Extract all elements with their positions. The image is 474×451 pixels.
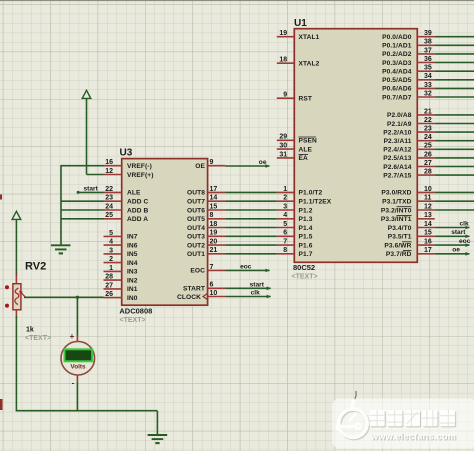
- U1 pin 21 P2.0/A8: [387, 108, 435, 119]
- U1 pin 31 EA: [277, 151, 308, 162]
- svg-text:P0.4/AD4: P0.4/AD4: [382, 69, 412, 76]
- U3 pin 3 IN5: [104, 247, 138, 258]
- svg-text:5: 5: [283, 221, 287, 228]
- IC U1 80C52 microcontroller body: [292, 18, 418, 281]
- wire and net label eoc at U1 P3.6: [435, 238, 471, 247]
- svg-text:IN4: IN4: [127, 260, 138, 267]
- svg-text:39: 39: [424, 30, 432, 37]
- svg-text:36: 36: [424, 56, 432, 63]
- svg-text:IN7: IN7: [127, 234, 138, 241]
- svg-text:4: 4: [109, 239, 113, 246]
- svg-text:OUT7: OUT7: [187, 199, 205, 206]
- U1 pin 25 P2.4/A12: [383, 143, 435, 154]
- U1 pin 3 P1.2: [277, 203, 313, 214]
- svg-text:11: 11: [424, 195, 432, 202]
- U1 pin 13 P3.3/INT1: [381, 212, 435, 223]
- svg-text:20: 20: [210, 239, 218, 246]
- U1 pin 27 P2.6/A14: [383, 160, 435, 171]
- svg-text:13: 13: [424, 212, 432, 219]
- wire and net label start at U1 P3.5: [435, 229, 470, 238]
- svg-text:ALE: ALE: [299, 146, 313, 153]
- wire P2.4/A12 to right edge: [435, 148, 474, 150]
- svg-text:oe: oe: [259, 159, 267, 166]
- svg-text:7: 7: [210, 264, 214, 271]
- wire P3.1/TXD to right edge: [435, 200, 474, 202]
- svg-text:P3.0/RXD: P3.0/RXD: [381, 190, 411, 197]
- U1 pin 24 P2.3/A11: [384, 134, 435, 145]
- junction dot wiper/voltmeter: [76, 296, 79, 299]
- svg-text:1: 1: [283, 186, 287, 193]
- U3 pin 15 OUT6: [187, 203, 225, 214]
- U1 pin 15 P3.5/T1: [388, 230, 435, 241]
- svg-text:P3.6/WR: P3.6/WR: [384, 242, 411, 249]
- svg-text:P2.3/A11: P2.3/A11: [384, 138, 412, 145]
- svg-text:IN5: IN5: [127, 251, 138, 258]
- U1 pin 8 P1.7: [277, 247, 313, 258]
- svg-text:P1.4: P1.4: [299, 225, 313, 232]
- svg-text:22: 22: [105, 186, 113, 193]
- svg-text:RV2: RV2: [25, 261, 46, 273]
- svg-text:P0.7/AD7: P0.7/AD7: [382, 94, 412, 101]
- wire and net label clk at U3 CLOCK pin: [225, 290, 271, 299]
- wire U3 OUT2 to U1 P1.6: [225, 244, 277, 246]
- svg-text:24: 24: [424, 134, 432, 141]
- U3 pin 14 OUT7: [187, 195, 225, 206]
- svg-text:ALE: ALE: [127, 190, 141, 197]
- svg-text:<TEXT>: <TEXT>: [292, 274, 318, 281]
- svg-text:2: 2: [283, 195, 287, 202]
- svg-text:<TEXT>: <TEXT>: [25, 335, 51, 342]
- U3 pin 2 IN4: [104, 256, 138, 267]
- svg-text:28: 28: [424, 169, 432, 176]
- wire P2.7/A15 to right edge: [435, 174, 474, 176]
- U3 pin 12 VREF(+): [104, 168, 154, 179]
- U3 pin 7 EOC: [190, 264, 225, 275]
- svg-text:eoc: eoc: [240, 264, 252, 271]
- U1 pin 12 P3.2/INT0: [381, 203, 435, 214]
- svg-text:30: 30: [279, 143, 287, 150]
- svg-text:ADD B: ADD B: [127, 207, 149, 214]
- svg-text:22: 22: [424, 117, 432, 124]
- U3 pin 8 OUT5: [187, 212, 225, 223]
- svg-text:P2.7/A15: P2.7/A15: [383, 172, 412, 179]
- svg-text:P0.3/AD3: P0.3/AD3: [382, 60, 412, 67]
- svg-text:8: 8: [210, 212, 214, 219]
- wire P0.2/AD2 to right edge: [435, 53, 474, 55]
- svg-text:6: 6: [283, 230, 287, 237]
- U1 pin 17 P3.7/RD: [386, 247, 435, 258]
- svg-text:start: start: [451, 229, 466, 236]
- svg-text:8: 8: [283, 247, 287, 254]
- U3 pin 22 ALE: [104, 186, 141, 197]
- resistor RV2 potentiometer: [5, 274, 26, 318]
- svg-text:P0.2/AD2: P0.2/AD2: [382, 51, 412, 58]
- wire power to VREF(+) vertical: [86, 98, 88, 174]
- svg-text:XTAL2: XTAL2: [299, 61, 320, 68]
- U1 pin 22 P2.1/A9: [387, 117, 435, 128]
- svg-text:27: 27: [424, 160, 432, 167]
- svg-text:10: 10: [210, 290, 218, 297]
- svg-text:P1.1/T2EX: P1.1/T2EX: [299, 199, 332, 206]
- IC U3 ADC0808 body: [119, 148, 207, 325]
- U3 CLOCK pin clock input marker: [203, 293, 208, 299]
- U1 pin 37 P0.2/AD2: [382, 47, 435, 58]
- svg-text:VREF(+): VREF(+): [127, 172, 154, 179]
- svg-text:ADD C: ADD C: [127, 199, 149, 206]
- svg-text:16: 16: [105, 159, 113, 166]
- svg-text:START: START: [183, 286, 205, 293]
- svg-text:P1.3: P1.3: [299, 216, 313, 223]
- svg-text:EA: EA: [299, 155, 308, 162]
- wire U3 OUT5 to U1 P1.3: [225, 218, 277, 220]
- svg-text:P1.2: P1.2: [299, 207, 313, 214]
- svg-text:21: 21: [424, 108, 432, 115]
- svg-text:2: 2: [109, 256, 113, 263]
- U3 pin 9 OE: [195, 159, 225, 170]
- U1 pin 34 P0.5/AD5: [382, 73, 435, 84]
- svg-text:P2.1/A9: P2.1/A9: [387, 121, 412, 128]
- svg-text:IN0: IN0: [127, 295, 138, 302]
- U1 pin 28 P2.7/A15: [383, 169, 435, 180]
- svg-text:P1.6: P1.6: [299, 242, 313, 249]
- svg-text:P2.5/A13: P2.5/A13: [383, 155, 412, 162]
- U1 pin 4 P1.3: [277, 212, 313, 223]
- svg-text:12: 12: [105, 168, 113, 175]
- wire P2.5/A13 to right edge: [435, 157, 474, 159]
- svg-text:OUT2: OUT2: [187, 242, 205, 249]
- wire P2.0/A8 to right edge: [435, 114, 474, 116]
- svg-text:37: 37: [424, 47, 432, 54]
- wire U3 OUT7 to U1 P1.1: [225, 200, 277, 202]
- svg-text:IN6: IN6: [127, 242, 138, 249]
- wire and net label oe at U3 OE pin: [225, 159, 269, 168]
- svg-text:3: 3: [283, 203, 287, 210]
- U1 pin 10 P3.0/RXD: [381, 186, 434, 197]
- svg-text:25: 25: [105, 212, 113, 219]
- power symbol (arrow) above RV2: [12, 211, 21, 219]
- svg-text:14: 14: [210, 195, 218, 202]
- svg-text:P3.3/INT1: P3.3/INT1: [381, 216, 412, 223]
- wire P2.1/A9 to right edge: [435, 123, 474, 125]
- wire P0.1/AD1 to right edge: [435, 44, 474, 46]
- svg-text:IN3: IN3: [127, 269, 138, 276]
- svg-text:17: 17: [210, 186, 218, 193]
- svg-text:P3.4/T0: P3.4/T0: [388, 225, 412, 232]
- wire P0.6/AD6 to right edge: [435, 87, 474, 89]
- wire power to VREF(+) horizontal: [87, 174, 104, 176]
- svg-text:VREF(-): VREF(-): [127, 163, 152, 170]
- svg-text:21: 21: [210, 247, 218, 254]
- svg-text:15: 15: [210, 203, 218, 210]
- wire U3 OUT1 to U1 P1.7: [225, 253, 277, 255]
- U3 pin 21 OUT1: [187, 247, 225, 258]
- svg-text:U3: U3: [120, 148, 133, 159]
- svg-text:9: 9: [283, 92, 287, 99]
- U1 pin 19 XTAL1: [277, 30, 320, 41]
- svg-text:start: start: [84, 186, 99, 193]
- U1 pin 5 P1.4: [277, 221, 313, 232]
- watermark elecfans logo box: [332, 391, 474, 449]
- U1 pin 23 P2.2/A10: [383, 126, 435, 137]
- svg-text:P3.5/T1: P3.5/T1: [388, 234, 412, 241]
- wire U3 OUT3 to U1 P1.5: [225, 235, 277, 237]
- svg-text:U1: U1: [294, 18, 307, 29]
- svg-text:14: 14: [424, 221, 432, 228]
- svg-text:28: 28: [105, 274, 113, 281]
- wire ground net vertical: [60, 165, 62, 245]
- svg-text:<TEXT>: <TEXT>: [120, 317, 146, 324]
- svg-text:OUT5: OUT5: [187, 216, 205, 223]
- svg-text:18: 18: [279, 57, 287, 64]
- svg-text:5: 5: [109, 230, 113, 237]
- wire U3 VREF(-) to ground net: [61, 165, 104, 167]
- svg-text:38: 38: [424, 39, 432, 46]
- wire U3 OUT4 to U1 P1.4: [225, 227, 277, 229]
- svg-text:PSEN: PSEN: [299, 138, 317, 145]
- U1 pin 7 P1.6: [277, 239, 313, 250]
- svg-text:+: +: [70, 332, 75, 341]
- svg-text:3: 3: [109, 247, 113, 254]
- svg-text:P1.5: P1.5: [299, 234, 313, 241]
- svg-text:P0.1/AD1: P0.1/AD1: [382, 43, 412, 50]
- U3 pin 28 IN2: [104, 274, 138, 285]
- ground symbol at ADC address/VREF net: [51, 245, 71, 253]
- svg-text:23: 23: [424, 126, 432, 133]
- svg-text:31: 31: [279, 151, 287, 158]
- wire U3 OUT8 to U1 P1.0: [225, 191, 277, 193]
- wire U3 ADD C to ground net: [61, 200, 104, 202]
- svg-text:P3.2/INT0: P3.2/INT0: [381, 207, 412, 214]
- svg-text:CLOCK: CLOCK: [177, 294, 201, 301]
- svg-text:24: 24: [105, 203, 113, 210]
- svg-text:start: start: [250, 282, 265, 289]
- svg-text:P0.6/AD6: P0.6/AD6: [382, 86, 412, 93]
- U3 pin 20 OUT2: [187, 239, 225, 250]
- wire and net label oe at U1 P3.7: [435, 247, 470, 256]
- wire P0.7/AD7 to right edge: [435, 96, 474, 98]
- svg-text:OUT4: OUT4: [187, 225, 205, 232]
- wire bottom rail to ground: [156, 411, 158, 435]
- svg-text:12: 12: [424, 203, 432, 210]
- svg-text:23: 23: [105, 195, 113, 202]
- U3 pin 1 IN3: [104, 265, 138, 276]
- wire and net label start at U3 ALE pin: [77, 186, 104, 194]
- U1 pin 36 P0.3/AD3: [382, 56, 435, 67]
- svg-text:80C52: 80C52: [293, 263, 315, 272]
- svg-text:ADD A: ADD A: [127, 216, 148, 223]
- U1 pin 9 RST: [277, 92, 312, 103]
- U3 pin 27 IN1: [104, 282, 138, 293]
- wire P0.0/AD0 to right edge: [435, 36, 474, 38]
- U3 pin 18 OUT4: [187, 221, 225, 232]
- U1 pin 26 P2.5/A13: [383, 151, 435, 162]
- U3 pin 5 IN7: [104, 230, 138, 241]
- svg-text:33: 33: [424, 82, 432, 89]
- U1 pin 30 ALE: [277, 143, 313, 154]
- svg-text:OUT6: OUT6: [187, 207, 205, 214]
- U3 pin 17 OUT8: [187, 186, 225, 197]
- wire P0.5/AD5 to right edge: [435, 79, 474, 81]
- U3 pin 26 IN0: [104, 291, 138, 302]
- wire RV2 bottom vertical: [15, 316, 17, 411]
- svg-text:clk: clk: [460, 220, 469, 227]
- svg-text:OUT8: OUT8: [187, 190, 205, 197]
- svg-text:15: 15: [424, 230, 432, 237]
- svg-text:27: 27: [105, 282, 113, 289]
- svg-text:1: 1: [109, 265, 113, 272]
- svg-text:16: 16: [424, 239, 432, 246]
- svg-text:eoc: eoc: [459, 238, 471, 245]
- svg-text:P1.0/T2: P1.0/T2: [299, 190, 323, 197]
- wire U3 ADD B to ground net: [61, 209, 104, 211]
- wire bottom rail horizontal: [16, 410, 158, 412]
- ground symbol at bottom rail: [148, 435, 168, 443]
- wire power arrow to RV2 top: [15, 219, 17, 276]
- U1 pin 6 P1.5: [277, 230, 313, 241]
- wire and net label start at U3 START pin: [225, 282, 271, 291]
- svg-text:35: 35: [424, 65, 432, 72]
- svg-text:25: 25: [424, 143, 432, 150]
- svg-text:oe: oe: [452, 247, 460, 254]
- U3 pin 23 ADD C: [104, 195, 149, 206]
- U1 pin 14 P3.4/T0: [388, 221, 435, 232]
- U1 pin 16 P3.6/WR: [384, 239, 434, 250]
- U3 pin 4 IN6: [104, 239, 138, 250]
- svg-text:4: 4: [283, 212, 287, 219]
- svg-text:P2.4/A12: P2.4/A12: [383, 147, 412, 154]
- power symbol (arrow) for VREF(+): [82, 90, 91, 98]
- U1 pin 38 P0.1/AD1: [382, 39, 435, 50]
- svg-text:7: 7: [283, 239, 287, 246]
- cut-off mark left edge lower: [0, 399, 3, 410]
- svg-text:IN2: IN2: [127, 277, 138, 284]
- wire U3 ADD A to ground net: [61, 218, 104, 220]
- U1 pin 1 P1.0/T2: [277, 186, 323, 197]
- svg-text:26: 26: [424, 151, 432, 158]
- wire and net label eoc at U3 EOC pin: [225, 264, 270, 273]
- svg-text:29: 29: [279, 134, 287, 141]
- svg-text:IN1: IN1: [127, 286, 138, 293]
- U3 pin 24 ADD B: [104, 203, 149, 214]
- svg-text:10: 10: [424, 186, 432, 193]
- svg-text:P2.6/A14: P2.6/A14: [383, 164, 412, 171]
- wire and net label clk at U1 P3.4: [435, 220, 470, 229]
- wire P0.4/AD4 to right edge: [435, 70, 474, 72]
- wire P3.0/RXD to right edge: [435, 191, 474, 193]
- U3 pin 16 VREF(-): [104, 159, 152, 170]
- svg-text:26: 26: [105, 291, 113, 298]
- svg-text:www.elecfans.com: www.elecfans.com: [370, 432, 456, 442]
- U1 pin 33 P0.6/AD6: [382, 82, 435, 93]
- svg-text:32: 32: [424, 90, 432, 97]
- U3 pin 19 OUT3: [187, 230, 225, 241]
- wire U3 OUT6 to U1 P1.2: [225, 209, 277, 211]
- U1 pin 11 P3.1/TXD: [382, 195, 435, 206]
- svg-text:19: 19: [210, 230, 218, 237]
- cut-off mark left edge upper: [0, 195, 2, 200]
- svg-text:P2.0/A8: P2.0/A8: [387, 112, 412, 119]
- voltmeter (Volts): [61, 297, 95, 410]
- svg-text:1k: 1k: [26, 327, 34, 334]
- svg-text:Volts: Volts: [70, 363, 86, 370]
- svg-text:P0.0/AD0: P0.0/AD0: [382, 34, 412, 41]
- svg-text:XTAL1: XTAL1: [299, 34, 320, 41]
- svg-text:EOC: EOC: [190, 268, 205, 275]
- svg-text:OE: OE: [195, 163, 205, 170]
- svg-text:P3.7/RD: P3.7/RD: [386, 251, 412, 258]
- wire P2.6/A14 to right edge: [435, 166, 474, 168]
- U1 pin 2 P1.1/T2EX: [277, 195, 332, 206]
- U1 pin 39 P0.0/AD0: [382, 30, 435, 41]
- U1 pin 32 P0.7/AD7: [382, 90, 435, 101]
- svg-text:-: -: [72, 379, 75, 388]
- U3 pin 6 START: [183, 282, 225, 293]
- svg-text:ADC0808: ADC0808: [119, 307, 152, 316]
- U1 pin 35 P0.4/AD4: [382, 65, 435, 76]
- svg-text:9: 9: [210, 159, 214, 166]
- U3 pin 25 ADD A: [104, 212, 149, 223]
- wire P3.2/INT0 to right edge: [435, 209, 474, 211]
- svg-text:34: 34: [424, 73, 432, 80]
- svg-text:OUT1: OUT1: [187, 251, 205, 258]
- svg-text:RST: RST: [299, 96, 313, 103]
- svg-text:OUT3: OUT3: [187, 234, 205, 241]
- U1 pin 18 XTAL2: [277, 57, 320, 68]
- svg-text:P2.2/A10: P2.2/A10: [383, 129, 412, 136]
- wire RV2 wiper to U3 IN0: [24, 296, 104, 298]
- svg-text:17: 17: [424, 247, 432, 254]
- U1 pin 29 PSEN: [277, 134, 317, 145]
- wire P2.2/A10 to right edge: [435, 131, 474, 133]
- wire P0.3/AD3 to right edge: [435, 62, 474, 64]
- svg-text:18: 18: [210, 221, 218, 228]
- svg-text:19: 19: [279, 30, 287, 37]
- U3 pin 10 CLOCK: [177, 290, 225, 301]
- svg-text:clk: clk: [251, 290, 260, 297]
- svg-text:P0.5/AD5: P0.5/AD5: [382, 77, 412, 84]
- svg-text:P3.1/TXD: P3.1/TXD: [382, 199, 412, 206]
- svg-text:P1.7: P1.7: [299, 251, 313, 258]
- svg-text:6: 6: [210, 282, 214, 289]
- wire P2.3/A11 to right edge: [435, 140, 474, 142]
